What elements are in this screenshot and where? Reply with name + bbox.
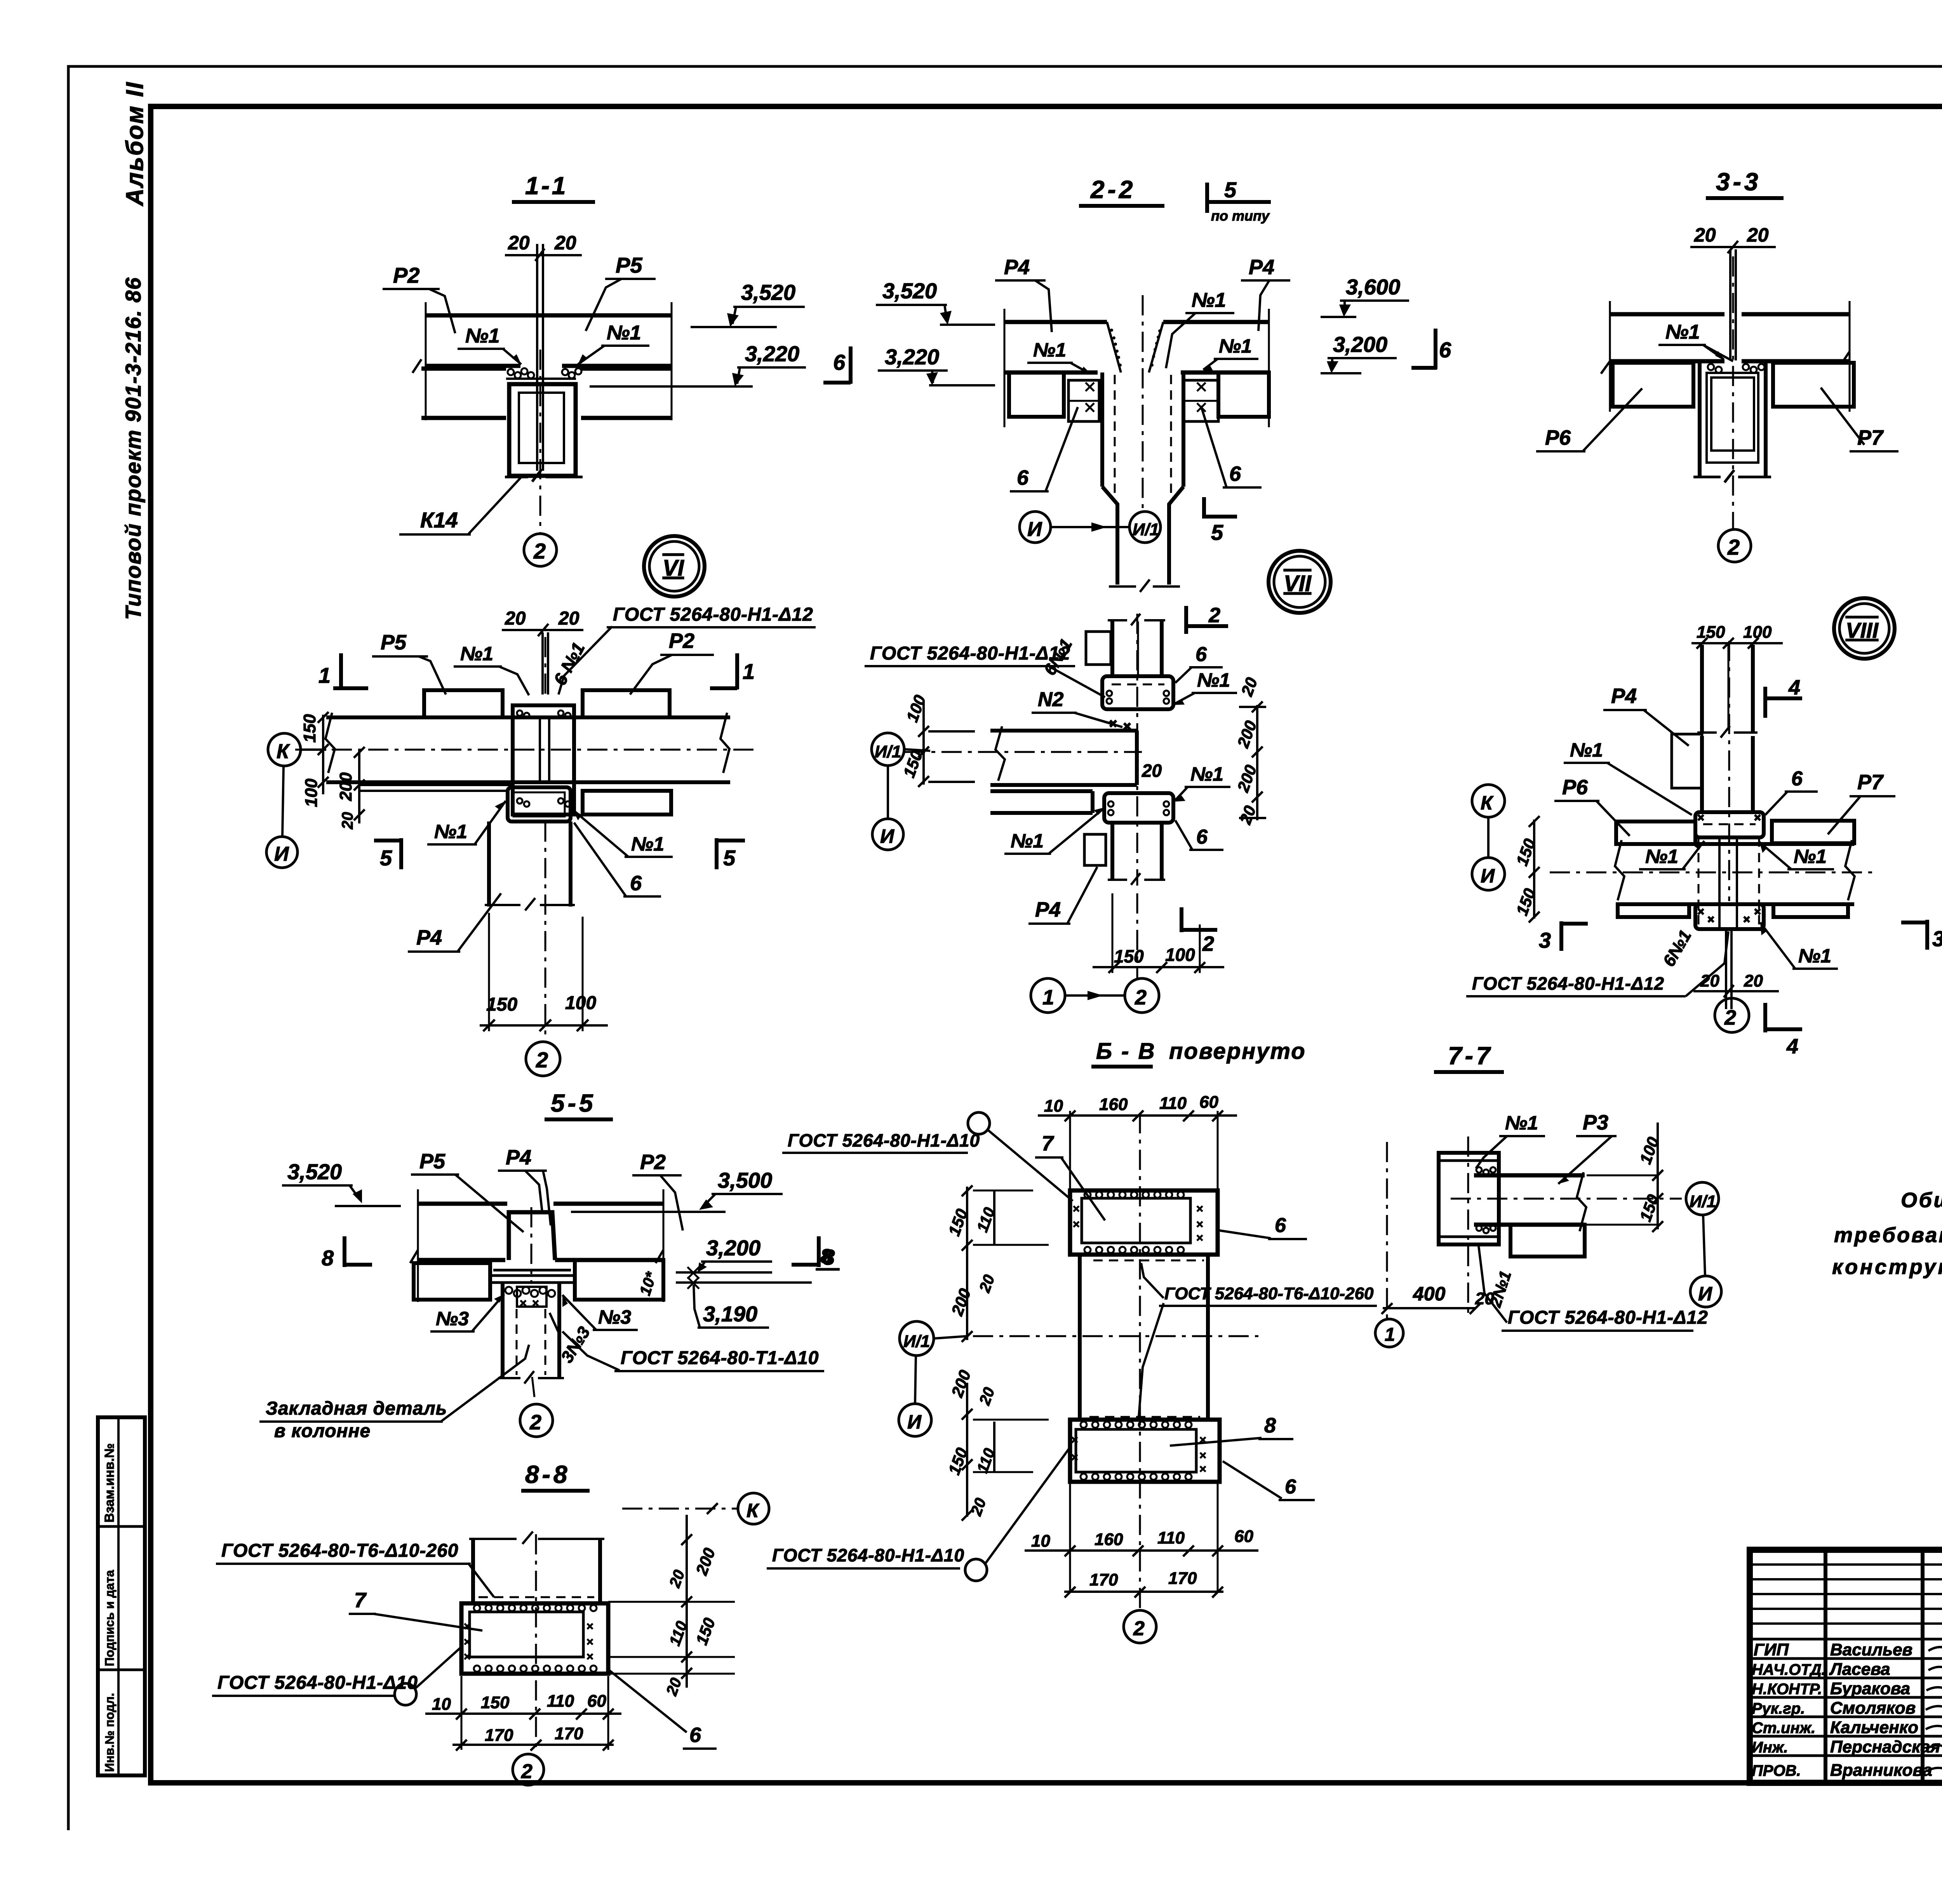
section 2-2 lower slabs	[1009, 372, 1269, 417]
svg-text:Буракова: Буракова	[1830, 1679, 1910, 1698]
section 1-1 lower slabs	[412, 359, 672, 418]
svg-text:К: К	[277, 740, 290, 763]
svg-text:ГОСТ 5264-80-Н1-Δ12: ГОСТ 5264-80-Н1-Δ12	[870, 643, 1070, 664]
svg-text:Р7: Р7	[1857, 771, 1884, 794]
svg-text:1: 1	[743, 659, 755, 684]
svg-text:20: 20	[554, 232, 576, 254]
svg-text:5-5: 5-5	[551, 1089, 596, 1117]
svg-text:4: 4	[1788, 676, 1800, 699]
section 1-1 elevation 3,220	[590, 341, 806, 386]
detail VIII label P6	[1554, 776, 1630, 836]
view B-V axis circle 2	[1124, 1610, 1156, 1643]
detail VIII lower joint	[1695, 904, 1764, 929]
svg-text:И: И	[274, 843, 289, 865]
section 2-2 bearing pads	[1068, 380, 1218, 421]
svg-text:20: 20	[558, 608, 579, 629]
section 7-7 column	[1439, 1136, 1499, 1315]
svg-text:5: 5	[723, 846, 736, 870]
view B-V top box	[1070, 1190, 1218, 1260]
section 1-1 gap dimension 20 20	[505, 232, 582, 261]
view B-V weld callout GOST T6	[1139, 1263, 1377, 1417]
section 2-2 title	[1079, 176, 1164, 206]
section 3-3 top slab	[1601, 301, 1850, 412]
svg-text:Перснадская: Перснадская	[1830, 1737, 1940, 1756]
detail VI weld callout GOST 5264-80-N1-D12	[559, 604, 816, 694]
svg-text:3,520: 3,520	[882, 278, 937, 303]
svg-text:10: 10	[432, 1695, 451, 1714]
svg-text:3-3: 3-3	[1716, 168, 1761, 196]
view B label 8 mark	[816, 1245, 840, 1269]
section 8-8 column above	[469, 1532, 604, 1750]
svg-text:Р2: Р2	[640, 1150, 666, 1174]
svg-text:№1: №1	[1033, 339, 1066, 361]
svg-text:ГОСТ 5264-80-Н1-Δ10: ГОСТ 5264-80-Н1-Δ10	[788, 1130, 980, 1150]
section 7-7 axis circle 1	[1375, 1319, 1403, 1347]
svg-text:170: 170	[485, 1726, 513, 1745]
svg-text:Закладная деталь: Закладная деталь	[266, 1398, 447, 1419]
view B-V weld callout GOST N1 lower	[767, 1446, 1071, 1581]
svg-text:7-7: 7-7	[1448, 1042, 1493, 1070]
svg-text:Р6: Р6	[1545, 426, 1571, 449]
section 5-5 bearing plate	[490, 1270, 575, 1283]
title block left revision rows	[1750, 1565, 1942, 1639]
svg-text:И: И	[880, 825, 894, 847]
svg-text:170: 170	[1168, 1569, 1197, 1588]
section 7-7 rotated label 2 N1	[1486, 1269, 1515, 1310]
view B-V bottom dimensions row 1	[1025, 1484, 1258, 1592]
section 2-2 label N1 left	[1027, 339, 1091, 374]
section 5-5 label P5	[411, 1150, 524, 1232]
svg-text:Р4: Р4	[1611, 684, 1637, 708]
section 1-1 column K14	[505, 384, 583, 482]
view B-V column middle	[1080, 1113, 1208, 1608]
svg-text:Ласева: Ласева	[1829, 1660, 1890, 1679]
svg-text:Б - В: Б - В	[1096, 1039, 1156, 1064]
svg-text:5: 5	[380, 846, 392, 870]
section 5-5 elevation 3,200	[676, 1236, 772, 1272]
view B-V weld callout GOST N1 upper	[782, 1112, 1073, 1201]
svg-text:№1: №1	[1192, 289, 1226, 312]
detail VII label N1 upper	[1173, 669, 1237, 705]
detail VI lower slab edge	[359, 785, 513, 791]
section 5-5 title	[545, 1089, 613, 1119]
svg-text:VII: VII	[1284, 571, 1312, 596]
svg-text:НАЧ.ОТД.: НАЧ.ОТД.	[1752, 1661, 1826, 1678]
view B-V top dimensions	[1038, 1093, 1237, 1190]
svg-text:ГОСТ 5264-80-Т1-Δ10: ГОСТ 5264-80-Т1-Δ10	[621, 1348, 819, 1368]
detail VI label 6	[574, 823, 661, 896]
section 5-5 lower slabs	[414, 1260, 663, 1300]
section 3-3 lower slabs	[1613, 363, 1854, 407]
svg-text:ГОСТ 5264-80-Т6-Δ10-260: ГОСТ 5264-80-Т6-Δ10-260	[1164, 1284, 1374, 1303]
section 1-1 elevation 3,520	[691, 280, 805, 327]
section 3-3 gap dimension 20 20	[1690, 224, 1776, 253]
svg-text:повернуто: повернуто	[1169, 1039, 1306, 1064]
svg-text:2: 2	[521, 1760, 532, 1783]
svg-text:И: И	[1481, 865, 1495, 887]
svg-text:Р3: Р3	[1583, 1111, 1608, 1134]
svg-text:Р4: Р4	[1004, 256, 1030, 279]
section 8-8 bottom dimensions row 2	[452, 1676, 614, 1751]
svg-text:Типовой проект 901-3-216. 86: Типовой проект 901-3-216. 86	[121, 277, 145, 620]
detail VIII label P7	[1828, 771, 1895, 834]
svg-text:10: 10	[1044, 1096, 1063, 1116]
section 1-1 top slab	[426, 302, 672, 420]
svg-text:100: 100	[1165, 945, 1195, 965]
detail VII axis circle 2	[1065, 978, 1159, 1013]
svg-text:150: 150	[486, 994, 517, 1015]
detail IX dim 400 horizontal extension	[1382, 1142, 1481, 1321]
detail VI left dimensions	[300, 712, 365, 830]
detail VIII girder band	[1550, 837, 1876, 928]
detail VII gap label 20	[1142, 761, 1162, 781]
detail VI axis circle I	[266, 766, 298, 868]
svg-text:№3: №3	[436, 1308, 469, 1330]
detail VI girder center line	[295, 749, 757, 751]
section 2-2 elevation 3,200	[1321, 332, 1397, 373]
detail VIII bolt below	[1726, 929, 1731, 1009]
detail VI label P2	[630, 629, 714, 694]
detail VI girder band	[325, 713, 730, 782]
section 5-5 axis circle 2	[520, 1377, 553, 1437]
section 8-8 axis circle 2	[513, 1754, 544, 1785]
svg-text:№1: №1	[1011, 830, 1044, 852]
svg-text:Р4: Р4	[1249, 256, 1274, 279]
detail VI lower joint plate	[508, 787, 571, 821]
section 7-7 weld label N1	[1476, 1112, 1545, 1168]
detail VI axis circle 2	[526, 1042, 560, 1076]
left margin vertical text Типовой проект 901-3-216.86	[121, 277, 145, 620]
svg-text:№1: №1	[1570, 739, 1603, 761]
svg-text:Общие указания приведены на: Общие указания приведены на листе 4, осн…	[1901, 1189, 1942, 1212]
svg-text:8: 8	[322, 1246, 334, 1270]
view B-V label 6 lower	[1223, 1461, 1315, 1500]
svg-text:100: 100	[302, 778, 321, 807]
svg-text:№1: №1	[607, 322, 641, 344]
view B-V lower box	[1070, 1417, 1220, 1482]
svg-text:3,520: 3,520	[741, 280, 795, 305]
detail VI section mark 1 left	[318, 653, 368, 689]
svg-text:150: 150	[1697, 623, 1725, 642]
detail VII section mark 2 top	[1186, 604, 1228, 634]
svg-text:№1: №1	[465, 325, 500, 347]
svg-text:Р7: Р7	[1857, 426, 1884, 449]
detail VIII bottom section mark 4	[1765, 1003, 1802, 1058]
svg-text:20: 20	[505, 608, 526, 629]
svg-text:3,220: 3,220	[745, 341, 799, 366]
section 7-7 weld callout GOST N1-D12	[1478, 1243, 1708, 1331]
svg-text:6: 6	[1229, 462, 1241, 486]
svg-text:3,600: 3,600	[1346, 275, 1400, 299]
svg-text:6: 6	[1017, 466, 1029, 489]
section 2-2 elevation 3,600	[1321, 275, 1409, 317]
detail VII lower column	[1108, 823, 1165, 885]
detail VI axis circle K	[268, 733, 326, 766]
section 2-2 axis circle I/1	[1051, 512, 1161, 543]
section 5-5 label P2	[632, 1150, 683, 1230]
svg-text:№1: №1	[460, 643, 493, 665]
detail VI gap dimension 20 20	[502, 608, 583, 636]
svg-text:N2: N2	[1038, 688, 1064, 711]
svg-text:20: 20	[1694, 224, 1716, 246]
detail VIII weld label N1 bottom	[1760, 922, 1838, 969]
detail VIII weld label N1 top	[1564, 739, 1692, 815]
detail VII label N2	[1032, 688, 1130, 729]
node circle VII	[1269, 551, 1331, 613]
svg-text:в колонне: в колонне	[274, 1421, 371, 1441]
detail VIII top dimension 150 100	[1691, 623, 1783, 649]
svg-text:И/1: И/1	[875, 742, 901, 761]
detail VII label N1 right mid	[1174, 763, 1230, 802]
svg-text:Рук.гр.: Рук.гр.	[1752, 1700, 1805, 1717]
detail VI label N1 lower left	[427, 801, 506, 844]
svg-text:3: 3	[1932, 926, 1942, 951]
svg-text:К: К	[747, 1500, 760, 1521]
svg-text:7: 7	[1042, 1132, 1055, 1155]
view B-V axis circle I/1	[900, 1321, 1258, 1356]
svg-text:по типу: по типу	[1211, 208, 1270, 224]
svg-text:Н.КОНТР.: Н.КОНТР.	[1752, 1681, 1822, 1698]
detail VII label N1 left lower	[1004, 807, 1105, 854]
detail VII weld callout GOST 5264-80-N1-D12	[865, 643, 1105, 697]
svg-text:2-2: 2-2	[1090, 176, 1136, 204]
section 3-3 label P6	[1536, 388, 1642, 451]
section 7-7 dimension 20	[1475, 1289, 1494, 1308]
detail VII lower plate	[1084, 834, 1106, 865]
svg-text:8: 8	[1264, 1414, 1276, 1437]
section mark 6 right of 1-1	[823, 346, 851, 384]
detail VII left dimension column	[900, 693, 975, 787]
section 7-7 weld marks	[1476, 1167, 1496, 1233]
section 5-5 section mark 8 right	[792, 1236, 835, 1269]
svg-text:2: 2	[529, 1411, 541, 1434]
section 3-3 column with casing	[1693, 363, 1771, 482]
svg-text:6: 6	[689, 1723, 701, 1747]
svg-text:3,500: 3,500	[718, 1168, 772, 1192]
view B-V label 6 upper	[1220, 1214, 1307, 1239]
view B-V axis circle I	[899, 1356, 931, 1436]
section 1-1 axis circle 2	[524, 534, 557, 566]
svg-text:№1: №1	[1645, 846, 1678, 867]
svg-text:2: 2	[1208, 604, 1220, 627]
section 3-3 weld label N1	[1658, 321, 1733, 361]
detail VI label P4	[408, 893, 501, 952]
svg-text:ГОСТ 5264-80-Н1-Δ12: ГОСТ 5264-80-Н1-Δ12	[1472, 973, 1664, 994]
detail VI column P4 below	[485, 821, 583, 1041]
section 8-8 axis circle K with line	[622, 1493, 769, 1524]
section 5-5 elevation 3,500	[571, 1168, 783, 1212]
section 1-1 column label K14	[399, 475, 524, 534]
section 2-2 elevation 3,520	[876, 278, 995, 325]
svg-text:7: 7	[354, 1589, 367, 1612]
svg-text:№1: №1	[1794, 846, 1827, 867]
detail VIII weld callout GOST	[1466, 931, 1728, 996]
svg-text:1: 1	[1042, 986, 1054, 1009]
detail VI label N1 upper	[454, 643, 529, 695]
title block frame	[1750, 1550, 1942, 1783]
detail VIII label 6	[1765, 768, 1818, 815]
detail VII upper joint box	[1102, 676, 1173, 709]
svg-text:10: 10	[1031, 1532, 1050, 1551]
section 1-1 beam P5 label	[586, 253, 656, 331]
section 5-5 rotated label 3 N3	[550, 1313, 594, 1366]
node circle VIII	[1834, 598, 1895, 659]
section 3-3 axis circle 2	[1718, 529, 1751, 562]
svg-text:2: 2	[1202, 932, 1214, 955]
svg-text:110: 110	[1157, 1528, 1185, 1547]
detail VIII axis circle 2	[1715, 998, 1749, 1032]
svg-text:№3: №3	[598, 1306, 631, 1328]
detail VII bottom dimension 150 100	[1093, 893, 1224, 979]
svg-text:60: 60	[587, 1692, 606, 1711]
section 2-2 column below	[1102, 295, 1183, 592]
section 8-8 weld callout GOST N1 with circle	[212, 1647, 461, 1705]
svg-text:170: 170	[555, 1724, 583, 1743]
detail VI rotated label 6 N1	[550, 639, 589, 688]
svg-text:4: 4	[1786, 1035, 1798, 1058]
svg-text:160: 160	[1095, 1530, 1123, 1549]
section 2-2 axis circle I	[1020, 512, 1051, 543]
section 5-5 elevation 3,520	[282, 1159, 401, 1206]
section 2-2 label N1 center	[1166, 289, 1234, 368]
svg-text:6: 6	[1275, 1214, 1286, 1237]
detail VIII section mark 3 right	[1901, 920, 1942, 951]
detail VII label 6 lower	[1175, 820, 1223, 850]
svg-text:110: 110	[1159, 1094, 1187, 1113]
svg-text:ГОСТ 5264-80-Н1-Δ10: ГОСТ 5264-80-Н1-Δ10	[218, 1673, 418, 1693]
svg-text:2: 2	[536, 1048, 548, 1072]
detail VII lower slab strip	[990, 791, 1093, 813]
svg-text:8: 8	[820, 1245, 832, 1268]
section 1-1 weld label N1 right	[578, 322, 649, 364]
node circle VI	[644, 536, 705, 597]
section 2-2 label N1 right	[1202, 335, 1258, 371]
svg-text:160: 160	[1099, 1095, 1128, 1114]
svg-text:№1: №1	[434, 821, 467, 842]
detail VII rotated label 6 N1	[1040, 635, 1076, 679]
svg-text:2: 2	[1133, 1617, 1145, 1640]
section 8-8 weld callout GOST T6	[216, 1540, 494, 1597]
svg-text:2: 2	[1727, 535, 1740, 559]
detail VI label N1 lower right	[573, 810, 673, 857]
section 5-5 top slab	[410, 1189, 663, 1302]
section 7-7 axis circle I	[1690, 1215, 1721, 1307]
section 7-7 axis circle I/1	[1686, 1182, 1719, 1215]
section 1-1 center line	[539, 350, 541, 534]
detail VIII upper column P4	[1697, 641, 1758, 901]
svg-text:6: 6	[833, 350, 846, 374]
svg-text:№1: №1	[1798, 945, 1831, 967]
svg-text:3,520: 3,520	[287, 1159, 342, 1184]
svg-text:Р6: Р6	[1562, 776, 1588, 799]
detail VII label 6 upper	[1175, 643, 1223, 683]
svg-text:20: 20	[339, 812, 356, 830]
section 2-2 label P4 left	[995, 256, 1052, 332]
svg-text:6: 6	[1439, 338, 1451, 362]
view B-V bottom dimensions row 2	[1064, 1569, 1223, 1598]
svg-text:400: 400	[1413, 1283, 1446, 1305]
section 8-8 right dimensions	[608, 1515, 735, 1698]
svg-text:6: 6	[630, 872, 642, 895]
svg-text:5: 5	[1211, 520, 1223, 545]
svg-text:К14: К14	[420, 508, 458, 532]
svg-text:Р2: Р2	[393, 263, 420, 287]
detail VIII left dimensions	[1512, 816, 1540, 922]
svg-text:Р4: Р4	[416, 926, 442, 949]
svg-text:170: 170	[1089, 1570, 1118, 1589]
svg-text:требования к выполнению раб: требования к выполнению работ по монтажу…	[1834, 1224, 1942, 1247]
svg-text:20: 20	[1142, 761, 1162, 781]
section 5-5 label P4	[498, 1146, 551, 1225]
svg-text:Р5: Р5	[419, 1150, 445, 1173]
svg-text:1-1: 1-1	[525, 172, 568, 200]
svg-text:6: 6	[1196, 826, 1208, 848]
section 1-1 weld label N1 left	[458, 325, 521, 364]
detail VI section mark 5 right	[717, 838, 745, 870]
detail VI label P5	[372, 631, 446, 694]
detail VI section mark 5 left	[374, 838, 401, 870]
detail VII girder band from left	[905, 726, 1142, 785]
section 2-2 top slabs	[1004, 309, 1269, 427]
left margin vertical text Альбом II	[122, 81, 148, 207]
svg-text:6: 6	[1195, 643, 1207, 666]
section 5-5 column head P4	[509, 1207, 555, 1282]
section 5-5 elevation 3,190 and gap 10	[637, 1267, 812, 1328]
section 3-3 bearing dots	[1708, 364, 1765, 373]
section 3-3 label P7	[1821, 388, 1898, 451]
detail VIII label P4	[1603, 684, 1689, 746]
view title B-V povernuto	[1091, 1039, 1306, 1067]
detail VIII weld label N1 mid right	[1759, 842, 1834, 869]
svg-text:Взам.инв.№: Взам.инв.№	[102, 1443, 117, 1523]
detail VI column plan	[513, 705, 574, 815]
svg-text:Р2: Р2	[669, 629, 694, 653]
svg-text:№1: №1	[1505, 1112, 1538, 1134]
svg-text:И/1: И/1	[1133, 520, 1159, 539]
section 1-1 anchor bolt	[537, 244, 543, 471]
section 5-5 weld label N3 left	[430, 1294, 504, 1331]
svg-text:Р4: Р4	[1035, 898, 1061, 921]
svg-text:150: 150	[300, 714, 319, 743]
section 2-2 elevation 3,220	[878, 345, 995, 385]
section 1-1 bearing grout	[506, 368, 581, 379]
detail VII bottom section mark 2	[1182, 907, 1217, 955]
detail VIII left plate	[1672, 734, 1702, 788]
detail VI bolt gap lines	[543, 632, 548, 699]
detail VI section mark 1 right	[710, 653, 755, 689]
svg-text:60: 60	[1199, 1093, 1218, 1112]
section 2-2 label 6 left	[1010, 407, 1078, 491]
svg-text:1: 1	[1385, 1324, 1395, 1345]
detail VIII upper slabs	[1616, 821, 1854, 844]
svg-text:20: 20	[1747, 224, 1769, 246]
svg-text:2: 2	[533, 539, 546, 563]
svg-text:№1: №1	[1190, 763, 1223, 785]
svg-text:И: И	[907, 1411, 922, 1433]
title block signatures	[1926, 1647, 1942, 1791]
svg-text:Вранникова: Вранникова	[1830, 1761, 1932, 1780]
detail VII axis circle I/1 left	[872, 733, 930, 766]
svg-text:№1: №1	[1219, 335, 1252, 357]
svg-text:8-8: 8-8	[525, 1460, 571, 1488]
section 3-3 title	[1706, 168, 1784, 198]
svg-text:ГИП: ГИП	[1754, 1640, 1789, 1659]
detail VIII axis circle I	[1472, 817, 1505, 890]
section 8-8 title	[521, 1460, 590, 1491]
svg-text:6: 6	[1285, 1476, 1296, 1498]
svg-text:ГОСТ 5264-80-Н1-Δ12: ГОСТ 5264-80-Н1-Δ12	[1508, 1307, 1708, 1328]
svg-text:20: 20	[1700, 971, 1719, 990]
